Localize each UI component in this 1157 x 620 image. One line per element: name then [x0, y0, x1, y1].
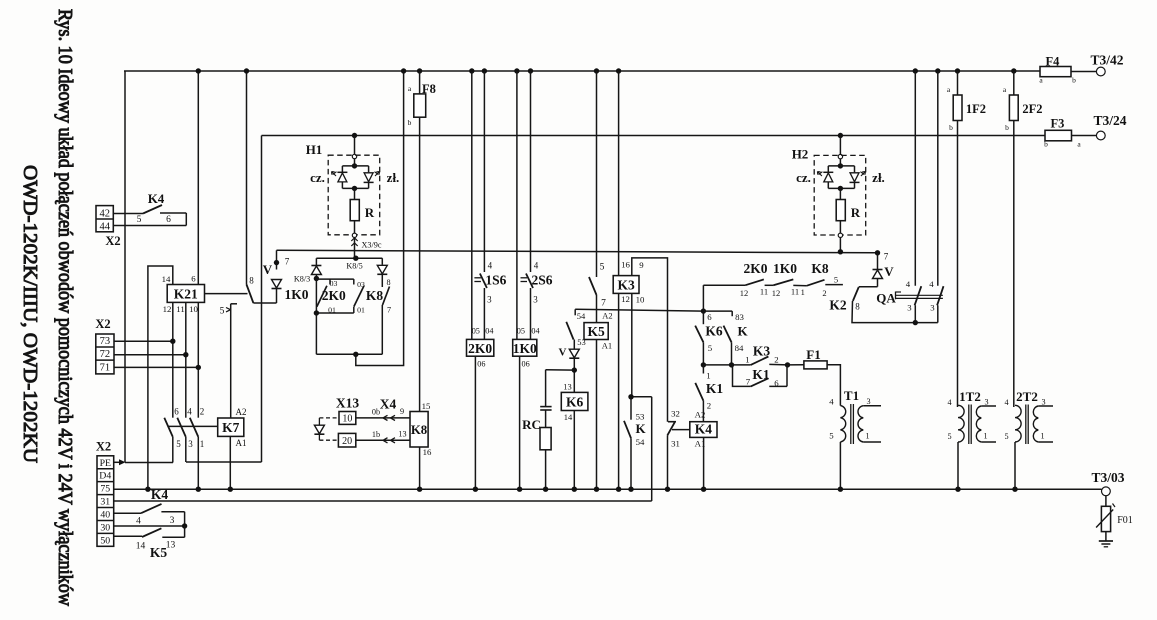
- svg-text:5: 5: [834, 275, 838, 285]
- svg-text:2K0: 2K0: [743, 261, 767, 276]
- svg-text:F01: F01: [1117, 515, 1133, 526]
- svg-text:4: 4: [1004, 398, 1008, 407]
- svg-text:K8/5: K8/5: [346, 262, 362, 271]
- svg-text:7: 7: [746, 376, 751, 386]
- svg-text:K3: K3: [753, 344, 771, 359]
- svg-text:12: 12: [772, 288, 781, 298]
- svg-text:8: 8: [249, 276, 254, 286]
- svg-text:14: 14: [136, 542, 146, 552]
- svg-text:K: K: [635, 421, 646, 436]
- svg-text:b: b: [1005, 123, 1009, 132]
- svg-text:F1: F1: [806, 347, 820, 362]
- svg-text:4: 4: [136, 517, 141, 527]
- svg-text:4: 4: [488, 261, 493, 271]
- svg-text:A2: A2: [602, 311, 612, 321]
- svg-text:X3/9c: X3/9c: [362, 241, 382, 250]
- svg-text:40: 40: [100, 510, 110, 521]
- svg-text:10: 10: [189, 304, 198, 314]
- svg-text:9: 9: [400, 407, 404, 416]
- svg-text:15: 15: [422, 401, 431, 411]
- svg-text:b: b: [949, 123, 953, 132]
- svg-text:X2: X2: [96, 440, 111, 454]
- svg-text:K8: K8: [811, 261, 829, 276]
- svg-text:2: 2: [707, 401, 711, 411]
- svg-text:12: 12: [163, 304, 172, 314]
- svg-text:75: 75: [100, 484, 110, 495]
- svg-text:OWD-1202K/IIIU, OWD-1202KU: OWD-1202K/IIIU, OWD-1202KU: [19, 165, 41, 464]
- svg-text:20: 20: [342, 436, 352, 447]
- svg-text:50: 50: [100, 535, 110, 546]
- svg-text:cz.: cz.: [796, 170, 811, 185]
- svg-text:1S6: 1S6: [485, 273, 506, 288]
- svg-text:4: 4: [187, 407, 192, 417]
- svg-text:cz.: cz.: [310, 170, 325, 185]
- svg-text:16: 16: [621, 260, 630, 270]
- svg-text:5: 5: [708, 343, 713, 353]
- svg-text:V: V: [884, 264, 894, 279]
- svg-text:3: 3: [866, 397, 870, 406]
- svg-text:71: 71: [100, 362, 111, 373]
- svg-text:3: 3: [907, 302, 912, 312]
- svg-text:1b: 1b: [372, 430, 380, 439]
- svg-text:K1: K1: [752, 367, 770, 382]
- svg-text:4: 4: [829, 396, 834, 406]
- svg-text:5: 5: [1004, 432, 1008, 441]
- svg-text:2S6: 2S6: [531, 273, 552, 288]
- svg-text:V: V: [559, 347, 567, 359]
- svg-text:2: 2: [200, 407, 205, 417]
- svg-text:9: 9: [639, 260, 644, 270]
- svg-text:16: 16: [423, 447, 432, 457]
- svg-text:11: 11: [791, 287, 799, 297]
- svg-text:2: 2: [774, 354, 778, 364]
- svg-text:6: 6: [166, 215, 171, 225]
- svg-text:06: 06: [522, 360, 530, 369]
- svg-text:8: 8: [386, 278, 390, 287]
- svg-text:7: 7: [387, 306, 391, 315]
- svg-text:1K0: 1K0: [284, 287, 308, 302]
- svg-text:b: b: [408, 118, 412, 127]
- svg-text:1: 1: [983, 432, 987, 441]
- svg-text:K2: K2: [829, 298, 847, 313]
- svg-text:T3/42: T3/42: [1090, 53, 1123, 68]
- svg-text:06: 06: [477, 360, 485, 369]
- svg-text:13: 13: [166, 541, 176, 551]
- svg-text:X2: X2: [95, 317, 110, 331]
- svg-text:4: 4: [534, 261, 539, 271]
- svg-text:73: 73: [100, 336, 111, 347]
- svg-text:12: 12: [621, 294, 630, 304]
- svg-text:QA: QA: [876, 291, 896, 306]
- svg-text:05: 05: [517, 327, 525, 336]
- svg-text:PE: PE: [100, 458, 111, 469]
- svg-text:H2: H2: [792, 147, 809, 162]
- svg-text:0b: 0b: [372, 408, 380, 417]
- svg-text:4: 4: [947, 398, 951, 407]
- svg-text:5: 5: [137, 215, 142, 225]
- svg-text:K8: K8: [411, 423, 427, 437]
- svg-text:F8: F8: [422, 82, 436, 96]
- svg-text:4: 4: [929, 279, 934, 289]
- svg-text:1: 1: [1040, 432, 1044, 441]
- svg-text:R: R: [365, 205, 375, 220]
- svg-text:H1: H1: [306, 142, 323, 157]
- svg-text:83: 83: [735, 312, 744, 322]
- svg-text:54: 54: [577, 311, 586, 321]
- svg-text:zł.: zł.: [872, 170, 885, 185]
- svg-text:5: 5: [176, 439, 181, 449]
- svg-text:11: 11: [176, 304, 184, 314]
- svg-text:R: R: [851, 205, 861, 220]
- svg-text:3: 3: [188, 439, 193, 449]
- svg-text:RC: RC: [522, 417, 541, 432]
- svg-text:32: 32: [671, 408, 680, 418]
- svg-text:K8/3: K8/3: [294, 275, 310, 284]
- svg-text:K4: K4: [148, 191, 165, 206]
- svg-text:2K0: 2K0: [468, 341, 492, 356]
- svg-text:30: 30: [100, 522, 110, 533]
- svg-text:K5: K5: [150, 545, 168, 560]
- svg-text:31: 31: [100, 497, 110, 508]
- svg-text:5: 5: [947, 432, 951, 441]
- svg-text:10: 10: [636, 294, 645, 304]
- svg-text:X2: X2: [105, 234, 120, 248]
- svg-text:72: 72: [100, 349, 111, 360]
- svg-text:K8: K8: [366, 288, 384, 303]
- svg-text:84: 84: [735, 343, 744, 353]
- svg-text:12: 12: [740, 288, 749, 298]
- svg-text:7: 7: [601, 299, 606, 309]
- svg-text:14: 14: [162, 274, 171, 284]
- svg-text:7: 7: [285, 257, 290, 267]
- svg-text:K1: K1: [706, 381, 724, 396]
- svg-text:A1: A1: [602, 340, 612, 350]
- svg-text:1: 1: [865, 431, 869, 440]
- svg-text:K4: K4: [151, 487, 169, 502]
- svg-text:6: 6: [174, 407, 179, 417]
- svg-text:2F2: 2F2: [1022, 102, 1042, 116]
- svg-text:X13: X13: [336, 396, 359, 411]
- svg-text:54: 54: [636, 437, 645, 447]
- svg-text:01: 01: [357, 306, 365, 315]
- svg-text:5: 5: [220, 307, 225, 317]
- svg-text:zł.: zł.: [387, 170, 400, 185]
- svg-text:V: V: [263, 262, 273, 277]
- svg-text:1: 1: [200, 439, 205, 449]
- svg-text:K7: K7: [222, 420, 240, 435]
- svg-text:14: 14: [564, 412, 573, 422]
- svg-text:1: 1: [801, 287, 805, 297]
- svg-text:F3: F3: [1051, 117, 1065, 131]
- svg-text:A1: A1: [236, 438, 247, 448]
- svg-text:8: 8: [855, 302, 860, 312]
- svg-text:11: 11: [760, 287, 768, 297]
- svg-text:44: 44: [99, 222, 110, 233]
- svg-text:K: K: [737, 324, 748, 339]
- svg-text:1K0: 1K0: [513, 341, 537, 356]
- svg-text:3: 3: [170, 516, 175, 526]
- svg-text:3: 3: [533, 295, 538, 305]
- svg-text:5: 5: [600, 263, 605, 273]
- svg-text:3: 3: [1041, 398, 1045, 407]
- svg-text:K4: K4: [695, 422, 713, 437]
- svg-text:K5: K5: [587, 324, 605, 339]
- svg-text:b: b: [1044, 140, 1048, 149]
- svg-text:Rys. 10 Ideowy układ połączeń: Rys. 10 Ideowy układ połączeń obwodów po…: [54, 9, 75, 606]
- svg-text:T3/03: T3/03: [1091, 470, 1124, 485]
- svg-text:13: 13: [398, 430, 406, 439]
- svg-text:6: 6: [707, 312, 712, 322]
- svg-text:3: 3: [930, 302, 935, 312]
- svg-text:1T2: 1T2: [959, 389, 981, 404]
- svg-text:K6: K6: [566, 395, 584, 410]
- svg-text:2: 2: [822, 288, 826, 298]
- svg-text:4: 4: [906, 279, 911, 289]
- svg-text:10: 10: [342, 413, 352, 424]
- svg-text:K3: K3: [617, 278, 635, 293]
- svg-text:2T2: 2T2: [1016, 389, 1038, 404]
- svg-text:2K0: 2K0: [322, 288, 346, 303]
- svg-text:1F2: 1F2: [966, 102, 986, 116]
- svg-text:31: 31: [671, 439, 680, 449]
- svg-text:05: 05: [472, 327, 480, 336]
- svg-text:7: 7: [884, 252, 889, 262]
- svg-text:T1: T1: [844, 388, 859, 403]
- svg-text:04: 04: [485, 327, 493, 336]
- svg-text:42: 42: [99, 209, 110, 220]
- svg-text:1K0: 1K0: [773, 261, 797, 276]
- svg-text:1: 1: [706, 370, 710, 380]
- svg-text:3: 3: [984, 398, 988, 407]
- svg-text:T3/24: T3/24: [1093, 113, 1126, 128]
- svg-text:1: 1: [745, 354, 749, 364]
- svg-text:X4: X4: [380, 397, 397, 412]
- svg-text:03: 03: [330, 279, 338, 288]
- svg-text:b: b: [1072, 76, 1076, 85]
- svg-text:3: 3: [487, 295, 492, 305]
- svg-text:5: 5: [829, 431, 834, 441]
- svg-text:K6: K6: [705, 324, 723, 339]
- svg-text:04: 04: [531, 327, 539, 336]
- svg-text:13: 13: [563, 382, 572, 392]
- svg-text:A2: A2: [236, 407, 247, 417]
- svg-text:6: 6: [191, 274, 196, 284]
- svg-text:D4: D4: [99, 471, 111, 482]
- svg-text:K21: K21: [174, 287, 198, 302]
